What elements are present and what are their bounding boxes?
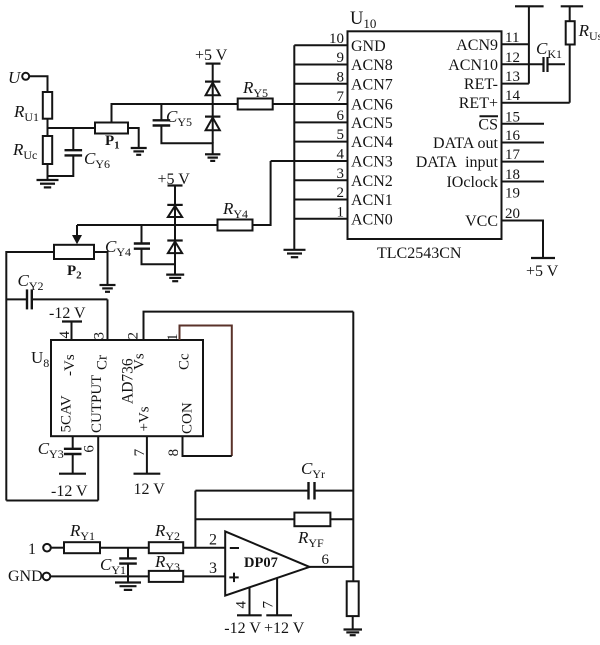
wire Cc loop (pin1 to pin8) upper bbox=[180, 326, 232, 457]
svg-text:6: 6 bbox=[82, 445, 98, 453]
wire CY4 bottom to D4 leg bbox=[142, 248, 176, 265]
svg-text:2: 2 bbox=[125, 332, 141, 340]
capacitor CYr bbox=[309, 482, 315, 500]
pin 12 wire bbox=[502, 63, 544, 65]
wire GND to RY3 bbox=[50, 575, 149, 577]
svg-text:4: 4 bbox=[337, 147, 345, 163]
svg-text:+5 V: +5 V bbox=[195, 47, 228, 64]
load resistor (output) bbox=[347, 581, 359, 616]
output column vertical bbox=[352, 312, 354, 582]
svg-text:ACN1: ACN1 bbox=[351, 192, 393, 209]
wire CY5 bottom to diode leg bbox=[161, 126, 212, 155]
resistor RYF bbox=[294, 513, 330, 527]
P2 wiper arrow bbox=[72, 225, 82, 244]
opamp pin 4 stub bbox=[249, 587, 251, 615]
IC U10 body bbox=[348, 31, 502, 239]
potentiometer P1 bbox=[95, 123, 128, 134]
pin 4 wire bbox=[271, 160, 348, 162]
svg-text:ACN9: ACN9 bbox=[456, 37, 498, 54]
ground symbol at P1 bbox=[131, 148, 147, 155]
pin 17 wire bbox=[502, 161, 545, 163]
pin CS name with overline bbox=[478, 116, 498, 133]
pin 6 wire bbox=[294, 121, 347, 123]
wire CY4 branch bbox=[141, 225, 143, 244]
wire +5V to D1 bbox=[212, 64, 214, 104]
svg-text:14: 14 bbox=[505, 88, 521, 104]
pin 15 wire bbox=[502, 123, 545, 125]
wire RY4 up to U10 pin 4 bbox=[253, 161, 271, 225]
ground symbol under RUc bbox=[37, 180, 59, 187]
+5V supply bar (P2 stage) bbox=[168, 184, 183, 186]
wire P1 wiper up to main line bbox=[112, 104, 238, 123]
wire rail B to RUs bbox=[569, 6, 571, 21]
capacitor CY5 bbox=[153, 120, 171, 125]
pin 4 stub to -12V bar bbox=[71, 322, 73, 341]
resistor RUc bbox=[43, 136, 52, 164]
plus sign bbox=[229, 573, 238, 582]
svg-text:CUTPUT: CUTPUT bbox=[89, 375, 105, 433]
svg-text:DP07: DP07 bbox=[244, 555, 278, 571]
svg-text:16: 16 bbox=[505, 128, 521, 144]
svg-text:ACN7: ACN7 bbox=[351, 76, 393, 93]
svg-text:10: 10 bbox=[329, 31, 344, 47]
wire CK1 to RUs branch bbox=[548, 63, 566, 65]
pin 7 wire bbox=[294, 103, 347, 105]
svg-text:VCC: VCC bbox=[465, 213, 498, 230]
resistor RY5 bbox=[238, 99, 273, 110]
pin 8 wire bbox=[294, 83, 347, 85]
svg-text:+12 V: +12 V bbox=[264, 620, 305, 637]
svg-text:1: 1 bbox=[165, 334, 181, 342]
wire CYr to output column bbox=[315, 490, 354, 492]
wire CY6 bottom to RUc bottom bbox=[48, 155, 74, 176]
wire RYF feedback bbox=[195, 518, 294, 520]
minus sign bbox=[230, 547, 239, 549]
svg-text:ACN10: ACN10 bbox=[448, 57, 498, 74]
svg-text:5: 5 bbox=[337, 127, 345, 143]
svg-text:7: 7 bbox=[132, 448, 148, 456]
12V supply bar (pin7) bbox=[134, 473, 161, 475]
wire CY1 branch bbox=[127, 548, 129, 559]
capacitor CY1 bbox=[119, 558, 137, 563]
svg-text:CON: CON bbox=[180, 402, 196, 434]
svg-text:Cr: Cr bbox=[95, 355, 111, 370]
svg-text:7: 7 bbox=[261, 601, 277, 609]
svg-text:ACN6: ACN6 bbox=[351, 97, 393, 114]
svg-text:DATA input: DATA input bbox=[416, 154, 499, 171]
pin 7 stub to 12V bar bbox=[146, 436, 148, 474]
ground symbol under CY1 bbox=[115, 583, 141, 590]
svg-text:GND: GND bbox=[351, 38, 386, 55]
wire RUc to ground bbox=[47, 164, 49, 180]
pin 5 wire bbox=[294, 141, 347, 143]
main wire P2 wiper line to RY4 bbox=[77, 224, 218, 226]
pin 14 wire bbox=[502, 102, 570, 104]
pin 1 wire bbox=[294, 218, 347, 220]
diode D2 bbox=[205, 104, 220, 143]
svg-text:-12 V: -12 V bbox=[49, 305, 86, 322]
IC U8 body bbox=[51, 340, 203, 436]
terminal 1 bbox=[43, 544, 51, 552]
wire load resistor to ground bbox=[352, 616, 354, 629]
svg-text:+Vs: +Vs bbox=[137, 406, 153, 431]
ground symbol below bus bbox=[284, 250, 306, 257]
svg-text:2: 2 bbox=[209, 532, 217, 549]
pin 18 wire bbox=[502, 181, 545, 183]
pin 3 stub Cr bbox=[107, 299, 109, 340]
pin 13 wire bbox=[502, 83, 529, 85]
svg-text:-12 V: -12 V bbox=[224, 620, 261, 637]
op-amp U9 DP07 triangle bbox=[225, 531, 309, 595]
resistor RUs bbox=[566, 21, 575, 44]
capacitor CY3 bbox=[64, 449, 82, 454]
svg-text:DATA out: DATA out bbox=[433, 135, 499, 152]
svg-text:IOclock: IOclock bbox=[446, 174, 498, 191]
svg-text:3: 3 bbox=[209, 560, 217, 577]
svg-text:2: 2 bbox=[337, 185, 345, 201]
opamp pin 7 stub bbox=[276, 578, 278, 615]
supply rail terminal A (top) bbox=[515, 5, 544, 7]
wire RYF to output column bbox=[330, 518, 353, 520]
pin 2 wire bbox=[294, 199, 347, 201]
+5V supply bar (bottom right) bbox=[531, 257, 555, 259]
wire RY5 to U10 pin7 bbox=[273, 103, 295, 105]
svg-text:GND: GND bbox=[8, 568, 43, 585]
wire terminal1 to RY1 bbox=[51, 547, 64, 549]
svg-text:1: 1 bbox=[337, 204, 345, 220]
wire rail A down to pin13 bbox=[528, 6, 530, 83]
pin 6 stub OUTPUT down bbox=[97, 436, 99, 500]
svg-text:18: 18 bbox=[505, 167, 520, 183]
wire RY3 to opamp non-inverting input bbox=[183, 575, 225, 577]
-12V supply bar (opamp) bbox=[237, 614, 262, 616]
wire node to CY6 bbox=[72, 128, 74, 150]
terminal GND bbox=[43, 573, 51, 581]
wire CY1 to ground bbox=[127, 564, 129, 582]
resistor RY1 bbox=[64, 542, 100, 553]
capacitor CY6 bbox=[65, 150, 83, 155]
svg-text:ACN2: ACN2 bbox=[351, 173, 393, 190]
wire RU1 to RUc bbox=[47, 119, 49, 136]
wire opamp output bbox=[310, 566, 354, 568]
svg-text:20: 20 bbox=[505, 206, 520, 222]
terminal U bbox=[22, 73, 29, 80]
svg-text:5CAV: 5CAV bbox=[59, 395, 75, 432]
wire +5V to D3 bbox=[174, 186, 176, 226]
capacitor CY4 bbox=[134, 244, 150, 249]
wire CY5 branch bbox=[160, 104, 162, 120]
pin 16 wire bbox=[502, 142, 545, 144]
svg-text:6: 6 bbox=[322, 552, 330, 568]
svg-text:1: 1 bbox=[28, 541, 36, 558]
svg-text:CS: CS bbox=[478, 116, 498, 133]
wire CYr feedback upper bbox=[195, 490, 308, 492]
ground symbol at P2 right bbox=[100, 285, 116, 292]
+5V supply bar bbox=[206, 62, 221, 64]
resistor RY4 bbox=[218, 220, 253, 231]
svg-text:ACN4: ACN4 bbox=[351, 134, 393, 151]
svg-text:7: 7 bbox=[337, 89, 345, 105]
diode D3 bbox=[167, 205, 182, 217]
ground bus (left of U10) bbox=[293, 45, 295, 250]
resistor RY2 bbox=[149, 542, 183, 553]
svg-text:8: 8 bbox=[337, 69, 345, 85]
svg-text:8: 8 bbox=[166, 449, 182, 457]
svg-text:Cc: Cc bbox=[176, 353, 192, 370]
ground symbol under diodes D1/D2 bbox=[205, 154, 220, 161]
svg-text:13: 13 bbox=[505, 69, 520, 85]
pin 11 wire bbox=[502, 43, 529, 45]
diode D4 bbox=[167, 225, 182, 275]
svg-text:-12 V: -12 V bbox=[51, 483, 88, 500]
wire P2 right to ground bbox=[94, 252, 108, 285]
wire U to RU1 bbox=[29, 76, 47, 92]
-12V supply bar (pin4) bbox=[62, 320, 82, 322]
capacitor CK1 bbox=[544, 57, 548, 72]
wire P1 right to ground bbox=[128, 128, 139, 148]
diode D1 bbox=[205, 82, 220, 96]
pin 20 wire VCC to +5V bbox=[502, 221, 544, 259]
potentiometer P2 bbox=[54, 245, 94, 259]
svg-text:9: 9 bbox=[337, 50, 345, 66]
wire CY2 line to pin 3 bbox=[32, 298, 108, 300]
svg-text:19: 19 bbox=[505, 185, 520, 201]
svg-text:4: 4 bbox=[234, 601, 250, 609]
svg-text:ACN3: ACN3 bbox=[351, 154, 393, 171]
wire outer loop to CY2 bbox=[6, 298, 27, 300]
svg-text:3: 3 bbox=[91, 332, 107, 340]
svg-text:3: 3 bbox=[337, 166, 345, 182]
pin 9 wire bbox=[294, 64, 347, 66]
svg-text:11: 11 bbox=[505, 30, 519, 46]
svg-text:12: 12 bbox=[505, 50, 520, 66]
-12V supply bar (pin5) bbox=[59, 473, 86, 475]
resistor RY3 bbox=[149, 571, 183, 582]
ground symbol under D4 bbox=[166, 275, 184, 282]
svg-text:TLC2543CN: TLC2543CN bbox=[377, 245, 462, 262]
+12V supply bar (opamp) bbox=[266, 614, 292, 616]
svg-text:ACN5: ACN5 bbox=[351, 115, 393, 132]
pin 10 wire bbox=[294, 44, 347, 46]
svg-text:U: U bbox=[8, 68, 22, 87]
pin 5 stub to CY3 bbox=[72, 436, 74, 449]
svg-text:6: 6 bbox=[337, 108, 345, 124]
wire P2 left to outer loop bbox=[6, 252, 54, 501]
svg-text:12 V: 12 V bbox=[134, 481, 166, 498]
svg-text:ACN8: ACN8 bbox=[351, 57, 393, 74]
capacitor CY2 bbox=[27, 289, 32, 309]
feedback node vertical bbox=[194, 491, 196, 548]
svg-text:17: 17 bbox=[505, 147, 521, 163]
svg-text:RET+: RET+ bbox=[459, 95, 498, 112]
pin 2 stub and wire Vs to output column bbox=[144, 312, 354, 340]
wire Cc loop lower bbox=[183, 436, 232, 456]
ground symbol at output bbox=[344, 630, 363, 636]
svg-text:ACN0: ACN0 bbox=[351, 211, 393, 228]
resistor RU1 bbox=[43, 92, 52, 119]
wire CY3 to -12V bar bbox=[72, 454, 74, 474]
wire RUs down to pin 14 bbox=[569, 45, 571, 103]
svg-text:15: 15 bbox=[505, 109, 520, 125]
svg-text:RET-: RET- bbox=[464, 76, 498, 93]
pin 3 wire bbox=[294, 179, 347, 181]
wire RY1 to RY2 bbox=[100, 547, 149, 549]
wire outer loop bottom bbox=[6, 500, 98, 502]
svg-text:-Vs: -Vs bbox=[62, 354, 78, 376]
wire node to P1 bbox=[48, 127, 96, 129]
svg-text:Vs: Vs bbox=[132, 353, 148, 370]
supply rail terminal B (top right) bbox=[561, 5, 583, 7]
svg-text:+5 V: +5 V bbox=[526, 263, 559, 280]
wire RY2 to opamp inverting input bbox=[183, 547, 225, 549]
